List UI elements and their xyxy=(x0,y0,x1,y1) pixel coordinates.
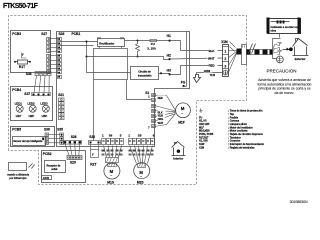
wire H1 to terminal 1 (BLK) xyxy=(170,41,223,54)
svg-text:PCB5: PCB5 xyxy=(12,127,21,131)
legend connector row xyxy=(199,140,240,143)
pcb PCB1 outline xyxy=(57,32,190,147)
svg-text:~: ~ xyxy=(110,174,112,178)
intelligent eye sensor box xyxy=(13,137,46,146)
svg-text:FU: FU xyxy=(151,42,155,46)
svg-text:por infrarrojos: por infrarrojos xyxy=(9,176,27,180)
svg-text:S26: S26 xyxy=(59,32,65,36)
thermistor R2T xyxy=(90,150,98,167)
pcb PCB2 signal receiver board xyxy=(42,151,86,183)
svg-text:RED: RED xyxy=(209,64,215,68)
svg-text:M2S: M2S xyxy=(137,180,145,184)
svg-text:S36: S36 xyxy=(44,127,50,131)
svg-text:PRECAUCION: PRECAUCION xyxy=(266,68,296,73)
connector S28 xyxy=(64,135,82,144)
legend thermistor row xyxy=(199,136,241,139)
svg-text:~: ~ xyxy=(181,111,183,115)
wires S28 to S29 xyxy=(65,144,80,155)
svg-text:S29: S29 xyxy=(70,160,76,164)
svg-text:señal: señal xyxy=(51,168,57,171)
fan motor wire labels xyxy=(158,96,166,126)
legend earth symbol row xyxy=(200,109,263,113)
wires S1 to fan motor xyxy=(155,96,176,127)
swing motor M1S xyxy=(104,158,120,185)
svg-text:Cableado a montar en: Cableado a montar en xyxy=(270,25,297,29)
interunit cable striped xyxy=(247,50,273,55)
svg-text:GRN/: GRN/ xyxy=(204,69,211,73)
wire transmission to H3 xyxy=(159,74,170,75)
caution note xyxy=(258,68,312,95)
remote signal marks xyxy=(29,164,35,169)
interior house icon xyxy=(172,142,186,161)
svg-text:S28: S28 xyxy=(71,135,77,139)
svg-text:S6: S6 xyxy=(109,134,113,138)
svg-text:H2: H2 xyxy=(167,54,171,58)
node H3 xyxy=(167,68,171,75)
wires S6 to swing motor M1S xyxy=(104,146,122,158)
svg-text:Receptor de: Receptor de xyxy=(47,164,62,167)
svg-text:~: ~ xyxy=(140,175,142,179)
svg-text:S27: S27 xyxy=(41,32,47,36)
connector S37 xyxy=(24,92,50,96)
connector S26 pins xyxy=(58,38,62,79)
svg-text:R2T: R2T xyxy=(90,163,96,167)
svg-text:S21: S21 xyxy=(58,93,64,97)
legend fuse row xyxy=(199,116,239,119)
svg-text:X1M: X1M xyxy=(199,146,204,149)
wire H3 to terminal 3 (RED) xyxy=(170,64,223,75)
connector S21 xyxy=(58,93,64,120)
svg-text:PCB4: PCB4 xyxy=(12,88,21,92)
svg-text:BLK: BLK xyxy=(209,49,216,53)
node FG xyxy=(181,32,187,88)
wire rectifier output to H1 xyxy=(125,40,170,42)
arrow to exterior xyxy=(283,47,293,51)
svg-text:mando a distancia: mando a distancia xyxy=(7,173,29,177)
svg-text:M: M xyxy=(181,106,185,111)
wire DC box to S1 xyxy=(127,80,152,100)
legend terminal strip row xyxy=(199,146,255,149)
legend swing motor row xyxy=(199,130,248,133)
wires S27 to S26 bundle xyxy=(51,39,58,73)
node H2 xyxy=(167,54,171,61)
connector S29 xyxy=(67,155,82,164)
svg-text:H1: H1 xyxy=(167,34,171,38)
svg-text:3D038530N: 3D038530N xyxy=(290,200,308,204)
svg-text:WHT: WHT xyxy=(158,122,164,125)
svg-text:S1W: S1W xyxy=(43,176,49,180)
diode/DC block box xyxy=(94,49,128,80)
transmission circuit box xyxy=(131,67,159,80)
connector S27 pins xyxy=(47,38,51,74)
legend xyxy=(199,109,264,150)
svg-text:H1P: H1P xyxy=(16,114,22,118)
svg-text:PCB1: PCB1 xyxy=(72,32,81,36)
svg-text:S1: S1 xyxy=(145,91,149,95)
connector S38 label and pins xyxy=(26,72,51,76)
outdoor earth terminal xyxy=(277,56,284,63)
legend housing row xyxy=(199,120,240,123)
wire color label rows under S8 xyxy=(129,150,154,156)
legend pcb row xyxy=(199,133,263,136)
signal receiver box xyxy=(45,161,66,173)
node H1 xyxy=(167,34,171,42)
cable break slashes xyxy=(249,44,256,54)
wires S32 to R2T xyxy=(91,145,99,150)
wires S38 to S37 bundle xyxy=(34,76,49,93)
connector block to interunit cable xyxy=(237,49,243,55)
svg-text:3: 3 xyxy=(224,64,226,68)
svg-text:S35: S35 xyxy=(57,127,63,131)
svg-text:FTKS50-71F: FTKS50-71F xyxy=(3,3,39,10)
pcb PCB3 xyxy=(11,31,51,73)
svg-text:PCB3: PCB3 xyxy=(12,32,21,36)
wires S8 to swing motor M2S xyxy=(130,146,153,164)
legend switch row xyxy=(199,143,264,146)
svg-text:Exterior: Exterior xyxy=(295,57,307,61)
svg-text:M1F: M1F xyxy=(178,121,185,125)
svg-text:H3: H3 xyxy=(167,68,171,72)
svg-text:FG: FG xyxy=(181,80,186,84)
legend fan motor row xyxy=(199,126,253,129)
terminal strip X1M xyxy=(221,40,228,76)
svg-text:X1M: X1M xyxy=(221,40,228,44)
svg-text:R1T: R1T xyxy=(19,65,25,69)
terminal hatch wedge xyxy=(229,42,237,73)
varistor Z xyxy=(136,41,140,57)
swing motor M2S xyxy=(134,163,150,185)
svg-text:obra: obra xyxy=(270,29,276,33)
svg-text:Interior: Interior xyxy=(173,157,184,161)
connector S1 pins xyxy=(152,94,156,128)
wire S26 to diode box xyxy=(61,45,94,47)
outdoor terminal bracket xyxy=(273,39,283,59)
svg-text:S32: S32 xyxy=(89,135,95,139)
node junction dots top xyxy=(137,40,139,42)
svg-text:: Regleta de terminales: : Regleta de terminales xyxy=(228,146,255,149)
indoor unit dashed boundary xyxy=(9,16,247,185)
sensor box pin xyxy=(42,138,44,141)
svg-text:YLW: YLW xyxy=(210,73,216,77)
wire vertical bus left xyxy=(87,42,131,73)
svg-text:H2P: H2P xyxy=(29,114,35,118)
svg-text:M1S: M1S xyxy=(107,180,115,184)
wire earth GRN/YLW with arrow to FG xyxy=(194,69,223,83)
wire H2 to terminal 2 (WHT) xyxy=(170,56,223,60)
connector S32 xyxy=(89,135,101,145)
svg-text:PCB2: PCB2 xyxy=(43,152,52,156)
svg-text:1: 1 xyxy=(224,50,226,54)
svg-text:S38: S38 xyxy=(26,72,32,76)
pilot lamp H2P (LED2) xyxy=(27,102,36,118)
connector S1 label xyxy=(145,91,150,130)
svg-text:WHT: WHT xyxy=(208,56,215,60)
wire H2 feed xyxy=(87,57,170,60)
wire S26 to rectifier input xyxy=(61,41,98,43)
connector S6 xyxy=(102,134,124,145)
pcb PCB5 xyxy=(11,127,55,147)
thermistor R1T xyxy=(14,53,31,70)
pilot lamp H1P (LED1) xyxy=(15,102,24,118)
svg-text:Sensor del ojo inteligente: Sensor del ojo inteligente xyxy=(13,140,43,143)
pilot lamp H3P (LED3) xyxy=(40,102,49,118)
wireless remote controller xyxy=(7,163,29,181)
pcb PCB4 xyxy=(11,87,53,121)
connector S36 pins xyxy=(45,133,48,144)
exterior house icon xyxy=(293,39,309,62)
cable clamp at boundary xyxy=(242,45,247,65)
wire color label rows under S6 xyxy=(102,150,123,156)
rectifier U xyxy=(98,38,125,49)
wires S36 to S35 xyxy=(48,135,59,143)
legend pilot lamp row xyxy=(199,123,247,126)
svg-text:Rectificador: Rectificador xyxy=(99,41,114,45)
svg-text:RED: RED xyxy=(158,97,163,100)
svg-text:Circuito de: Circuito de xyxy=(138,70,151,73)
operation switch S1W xyxy=(42,176,52,180)
svg-text:S8: S8 xyxy=(138,134,142,138)
svg-text:S37: S37 xyxy=(24,92,30,96)
fan motor M1F xyxy=(176,103,191,125)
svg-text:H3P: H3P xyxy=(42,114,48,118)
fuse FU 3,15A xyxy=(147,39,156,50)
svg-text:2: 2 xyxy=(224,57,226,61)
wire DC box down to S32 xyxy=(93,80,95,141)
svg-text:ORG: ORG xyxy=(158,118,164,121)
connector S35 xyxy=(57,127,63,144)
field wiring note box xyxy=(267,18,301,38)
svg-text:3, 15A: 3, 15A xyxy=(147,46,156,50)
connector S8 xyxy=(128,134,154,145)
svg-text:da de nuevo.: da de nuevo. xyxy=(275,91,295,95)
svg-text:transmisión: transmisión xyxy=(138,75,152,78)
